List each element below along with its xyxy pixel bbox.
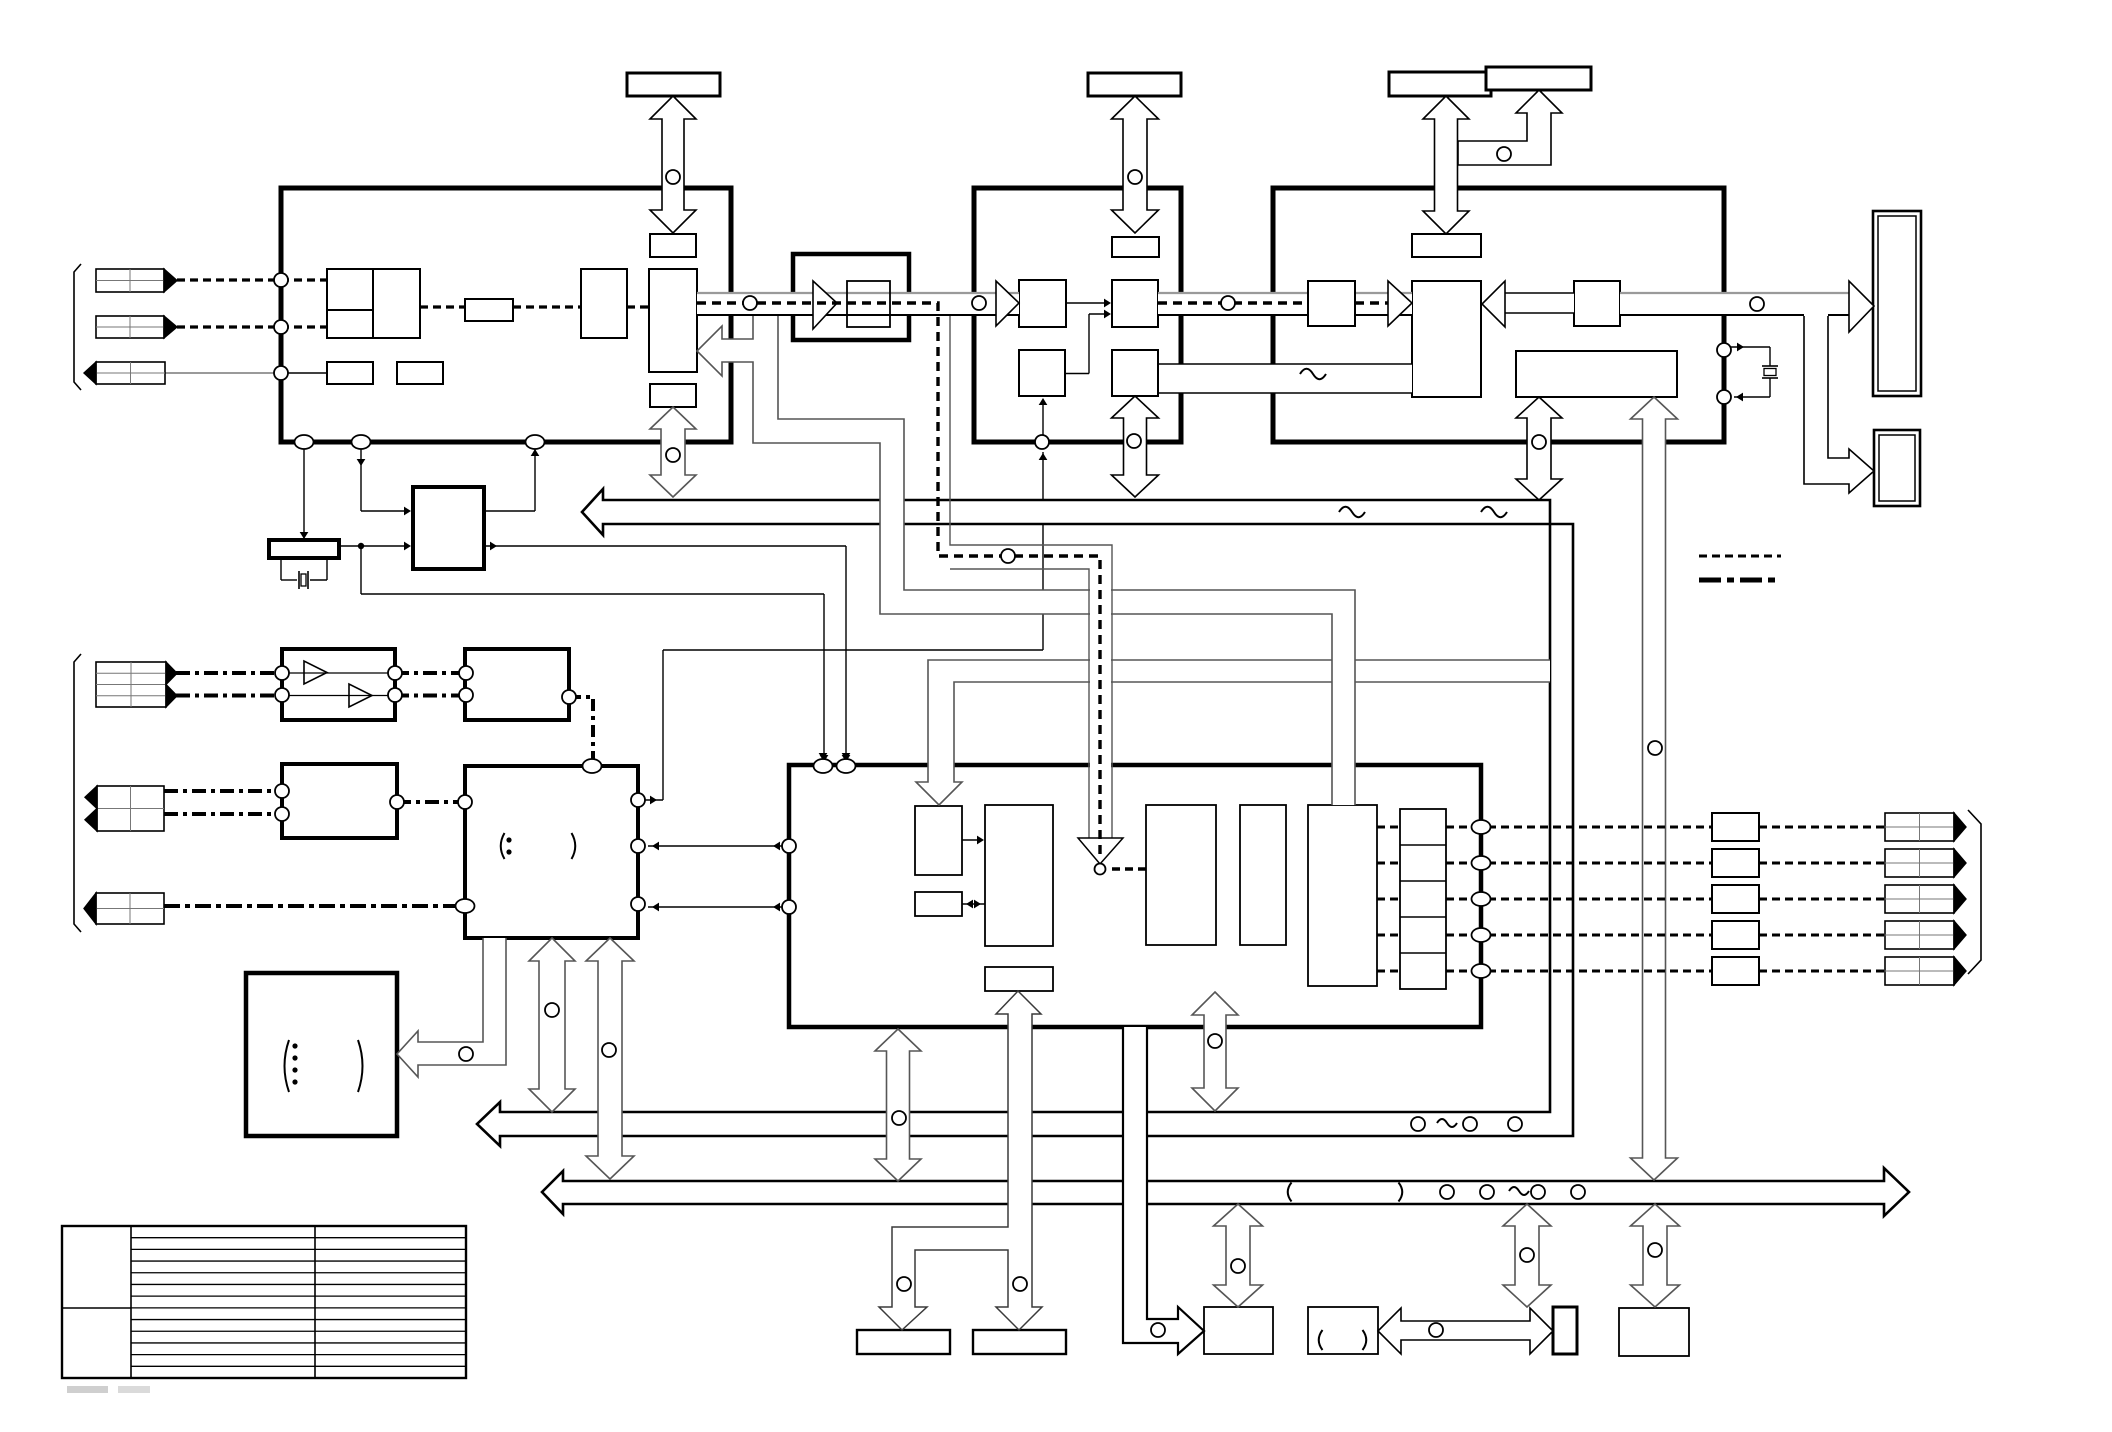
node xtal2 bot <box>1717 390 1731 404</box>
channel mux fill <box>1090 546 1111 840</box>
node output 1 <box>1472 820 1491 834</box>
node V4 <box>1231 1259 1245 1273</box>
symbol tilde bus1 <box>1437 1119 1457 1127</box>
symbol tilde bus2 <box>1509 1187 1529 1195</box>
arrow A3 R3a-RBR1 <box>1423 96 1469 234</box>
node amp in2 <box>275 688 289 702</box>
connector output J9 <box>1885 885 1954 913</box>
arrow A2 R2-MBR1 <box>1112 96 1159 233</box>
node BB2-BB3 <box>1429 1323 1443 1337</box>
wire amp line 1 <box>282 672 395 674</box>
arrow A6 below tuner <box>1112 396 1159 497</box>
node V2 <box>1532 435 1546 449</box>
node A5 <box>666 448 680 462</box>
box MB2 <box>1112 280 1158 327</box>
box BB4 <box>1619 1308 1689 1356</box>
node bus1 c <box>1508 1117 1522 1131</box>
node bus1 a <box>1411 1117 1425 1131</box>
bus main bottom bus2 <box>542 1168 1909 1216</box>
display DB1 <box>1873 211 1921 396</box>
box S2 <box>397 362 443 384</box>
wire dashed output row 1 <box>1377 826 1400 829</box>
legend dashed sample <box>1699 555 1781 558</box>
arrowhead AH1 <box>813 281 837 329</box>
symbol paren BB2 <box>1319 1330 1323 1350</box>
node A6 <box>1127 434 1141 448</box>
node band 4 <box>1750 297 1764 311</box>
symbol switch LL1 <box>285 1040 290 1092</box>
wire dashdot audio in 1 <box>176 671 282 675</box>
wire Y1 up to oval3 <box>484 510 535 512</box>
box output driver 2 <box>1712 849 1759 877</box>
node output 3 <box>1472 892 1491 906</box>
channel video return fill <box>697 316 1355 805</box>
wire dashed output row 4 <box>1377 934 1400 937</box>
wire RBedge circle to crystal top <box>1724 346 1770 348</box>
bus video band seg B <box>1158 293 1412 315</box>
box B2 <box>581 269 627 338</box>
arrow A4 to R3b <box>1458 90 1562 165</box>
box mux column <box>1400 809 1446 989</box>
arrowhead mux ARR_D1 <box>1078 838 1123 864</box>
junction block1 c <box>526 435 545 449</box>
crystal XT2 <box>1762 365 1778 367</box>
node SEL1 r1 <box>631 793 645 807</box>
box sync sep M1 <box>793 254 909 340</box>
arrow A5 below block1 <box>650 407 696 497</box>
amp triangle 1 <box>304 661 327 684</box>
connector J1 video in <box>96 269 164 292</box>
arrow V2 W1-L1bus <box>1516 397 1562 500</box>
channel to BB1 outline <box>1123 1027 1204 1354</box>
node bus1 b <box>1463 1117 1477 1131</box>
wire dashdot audio in 2 <box>176 694 282 698</box>
arrow V7 bus2-BB4 <box>1631 1204 1680 1307</box>
node NB1 out <box>562 690 576 704</box>
box BB3 <box>1553 1307 1577 1354</box>
arrow A1 R1-RT <box>650 96 696 233</box>
node amp in1 <box>275 666 289 680</box>
junction MBB top a <box>814 759 833 773</box>
box S1 <box>327 362 373 384</box>
node AB2 in2 <box>275 807 289 821</box>
node video out <box>274 366 288 380</box>
arrow V6 bus2-BB3 <box>1503 1204 1551 1307</box>
symbol tilde L1 a <box>1339 507 1365 517</box>
node mux in <box>1095 864 1106 875</box>
wire amp line 2 <box>282 695 395 697</box>
bus cpu-RB3 shaft <box>1505 293 1574 313</box>
block main digital board <box>281 188 731 442</box>
table track chart <box>62 1226 466 1378</box>
node tuner fb <box>1035 435 1049 449</box>
node band 2 <box>972 296 986 310</box>
box noise filter NB1 <box>465 649 569 720</box>
bus arrow system L1 + riser + bus1 <box>477 489 1573 1146</box>
arrowhead MBB oval a <box>819 753 828 760</box>
node SEL1 r2 <box>631 839 645 853</box>
node A2 <box>1128 170 1142 184</box>
node V7 <box>1648 1243 1662 1257</box>
arrowhead AH2 into MB1 <box>996 281 1019 326</box>
box RB_R1 <box>1412 234 1481 257</box>
wire dashed video input 1 <box>177 278 327 281</box>
channel to IB1 outline <box>916 660 1550 805</box>
box output driver 3 <box>1712 885 1759 913</box>
arrow U2 SEL1-bus2 <box>586 938 634 1179</box>
box key matrix W1 <box>1516 351 1677 397</box>
box output driver 5 <box>1712 957 1759 985</box>
box osc X1 <box>269 540 339 558</box>
wire dashdot AB2 to SEL1 <box>397 800 465 804</box>
block tuner board <box>974 188 1181 442</box>
display DB3 <box>1874 430 1920 506</box>
box R_mid2 <box>985 967 1053 991</box>
box IB1 <box>915 806 962 875</box>
wire dashed S0 to B2 <box>513 305 581 308</box>
box servo Y1 <box>413 487 484 569</box>
node LL arrow <box>459 1047 473 1061</box>
box eeprom R3b <box>1486 67 1591 90</box>
wire MB3 up from circle <box>1042 402 1044 435</box>
arrowhead into RB1 right <box>1388 281 1412 326</box>
box R_T <box>650 234 696 257</box>
connector output J10 <box>1885 921 1954 949</box>
box rect2 bottom <box>973 1330 1066 1354</box>
block signal process board <box>789 765 1481 1027</box>
node video in 1 <box>274 273 288 287</box>
connector output J11 <box>1885 957 1954 985</box>
node bus2 b <box>1480 1185 1494 1199</box>
node band 1 <box>743 296 757 310</box>
box S0 <box>465 299 513 321</box>
arrow V4 bus2-BB1 <box>1214 1204 1263 1307</box>
channel to BB1 fill <box>1123 1027 1204 1354</box>
connector output J7 <box>1885 813 1954 841</box>
node leg A <box>897 1277 911 1291</box>
node MBB down <box>892 1111 906 1125</box>
node MBB l1 <box>782 839 796 853</box>
wire oval1 down to X1 <box>303 448 305 538</box>
wire oval2 down <box>360 449 362 511</box>
channel mux thin <box>950 316 1112 838</box>
wire SEL1 ctrl 2 <box>648 906 789 908</box>
crystal XT1 <box>298 571 300 589</box>
box IB3 <box>915 892 962 916</box>
node U1 <box>545 1003 559 1017</box>
box MB_C <box>1308 805 1377 986</box>
bus band tee gap <box>1804 313 1828 317</box>
wire dashed B1 to S0 <box>420 305 465 308</box>
wire dashdot audio in 3 <box>164 789 282 793</box>
arrow band to DB3 outline <box>1804 316 1874 493</box>
channel video return outline <box>697 316 1355 805</box>
box ram R1 <box>627 73 720 96</box>
box rect1 bottom <box>857 1330 950 1354</box>
symbol tilde analog band <box>1300 369 1326 379</box>
connector J6 mic <box>96 893 164 924</box>
box output driver 1 <box>1712 813 1759 841</box>
wire MB3 to MB2 <box>1065 373 1089 375</box>
box MB_B <box>1240 805 1286 945</box>
node output 5 <box>1472 964 1491 978</box>
bus video band seg A <box>697 293 1019 315</box>
wire dashed band RB2-arrow <box>1355 301 1388 304</box>
wire dashdot NB1 down to SEL1 <box>569 697 593 760</box>
wire dashed B2 to T1 <box>627 305 649 308</box>
arrow BB2-BB3 horiz <box>1378 1308 1553 1354</box>
wire dashed band main <box>697 303 1100 860</box>
node BB1 in <box>1151 1323 1165 1337</box>
junction SEL1 mic <box>456 899 475 913</box>
wire dashed band mid <box>1158 301 1308 304</box>
node amp out1 <box>388 666 402 680</box>
wire dashed output row 5 <box>1377 970 1400 973</box>
node output 2 <box>1472 856 1491 870</box>
box B1 input proc <box>327 269 420 338</box>
arrowhead MBB oval b <box>842 753 851 760</box>
wire dashed output row 3 <box>1377 898 1400 901</box>
box T1 converter <box>649 269 697 372</box>
box MB1 <box>1019 280 1066 327</box>
node AB2 out <box>390 795 404 809</box>
box M1 inner <box>847 281 890 327</box>
box cpu RB1 <box>1412 281 1481 397</box>
arrowhead AH3 into DB1 <box>1849 281 1874 332</box>
block audio select <box>465 766 638 938</box>
node band 3 <box>1221 296 1235 310</box>
node bus2 d <box>1571 1185 1585 1199</box>
bus analog band low <box>1159 364 1412 393</box>
wire Y1 out to MBB oval <box>484 545 846 547</box>
node bus2 c <box>1531 1185 1545 1199</box>
node dashed corner <box>1001 549 1015 563</box>
wire crystal2 line <box>1769 347 1771 366</box>
bracket input group 2 <box>74 654 81 932</box>
box MB4 <box>1112 350 1158 396</box>
box amplifier AMP1 <box>282 649 395 720</box>
connector output J8 <box>1885 849 1954 877</box>
node output 4 <box>1472 928 1491 942</box>
caption gray <box>67 1386 108 1393</box>
node A4 <box>1497 147 1511 161</box>
box MB3 <box>1019 350 1065 396</box>
channel audio mon legs <box>879 991 1042 1330</box>
symbol switch SEL1 <box>501 833 505 859</box>
box rom R3a <box>1389 72 1491 96</box>
bracket input group 1 <box>74 264 81 390</box>
amp triangle 2 <box>349 684 372 707</box>
node U3 <box>1208 1034 1222 1048</box>
arrow U1 SEL1-bus1 <box>529 938 575 1112</box>
node leg B <box>1013 1277 1027 1291</box>
wire dashdot amp to NB1 row1 <box>395 671 465 675</box>
node V3 <box>1648 741 1662 755</box>
wire MB1 to MB2 <box>1066 302 1106 304</box>
wire below circle MB <box>1039 453 1048 460</box>
symbol paren bus2 <box>1288 1183 1292 1202</box>
box MB_R1 <box>1112 237 1159 257</box>
arrow into LL1 fill <box>397 938 506 1077</box>
junction block1 b <box>352 435 371 449</box>
node NB1 in2 <box>459 688 473 702</box>
box RB2 <box>1308 281 1355 326</box>
node V6 <box>1520 1248 1534 1262</box>
box ram R2 <box>1088 73 1181 96</box>
connector J4 audio in <box>96 662 166 707</box>
node NB1 in1 <box>459 666 473 680</box>
channel to IB1 fill <box>916 660 1550 805</box>
arrow U3 rect-bus1 <box>1192 992 1238 1111</box>
wire dashed T1 entry <box>696 306 698 308</box>
wire crystal X1 left leg <box>280 558 282 580</box>
box IB2 <box>985 805 1053 946</box>
arrow into LL1 outline <box>397 938 506 1077</box>
node bus2 a <box>1440 1185 1454 1199</box>
wire SEL1 to riser <box>638 799 663 801</box>
node xtal2 top <box>1717 343 1731 357</box>
wire SEL1 ctrl 1 <box>648 845 789 847</box>
junction block1 a <box>295 435 314 449</box>
junction SEL1 top <box>583 759 602 773</box>
connector J3 video out <box>96 362 165 384</box>
box audio proc AB2 <box>282 764 397 838</box>
box BB2 sensor <box>1308 1307 1378 1354</box>
box output driver 4 <box>1712 921 1759 949</box>
wire dashed mux out <box>1112 867 1146 870</box>
node amp out2 <box>388 688 402 702</box>
node video in 2 <box>274 320 288 334</box>
wire gray output line to S1 <box>165 372 281 374</box>
box RB3 <box>1574 281 1620 326</box>
arrowhead into RB1 left <box>1482 281 1505 327</box>
wire dashed output row 2 <box>1377 862 1400 865</box>
wire IB3 to IB2 <box>962 903 985 905</box>
node MBB l2 <box>782 900 796 914</box>
node SEL1 r3 <box>631 897 645 911</box>
wire IB1 to IB2 <box>962 839 982 841</box>
wire dashed video input 2 <box>177 325 327 328</box>
node U2 <box>602 1043 616 1057</box>
box MB_A <box>1146 805 1216 945</box>
connector J5 audio out <box>97 786 164 831</box>
block system control board <box>1273 188 1724 442</box>
node SEL1 in <box>458 795 472 809</box>
arrow MBB-bus2 double <box>875 1029 921 1181</box>
bracket output group <box>1968 810 1981 974</box>
connector J2 video in 2 <box>96 316 164 338</box>
node AB2 in1 <box>275 784 289 798</box>
box RB2 redraw <box>1308 281 1355 326</box>
wire dashdot audio in 4 <box>164 812 282 816</box>
wire crystal X1 right leg <box>326 558 328 580</box>
symbol tilde L1 b <box>1481 507 1507 517</box>
node A1 <box>666 170 680 184</box>
wire X1 to Y1 <box>339 545 406 547</box>
box BB1 timer <box>1204 1307 1273 1354</box>
bus video band seg C <box>1620 293 1849 315</box>
wire dashdot amp to NB1 row2 <box>395 694 465 698</box>
wire dashdot mic in <box>164 904 465 908</box>
block cassette mech LL1 <box>246 973 397 1136</box>
junction MBB top b <box>837 759 856 773</box>
arrow band to DB3 fill <box>1804 316 1874 493</box>
box R_mid <box>650 384 696 407</box>
arrow V3 W1-bus2 long <box>1631 397 1678 1180</box>
wire X1 branch to MBB oval <box>360 546 362 594</box>
legend dashdot sample <box>1699 578 1778 583</box>
